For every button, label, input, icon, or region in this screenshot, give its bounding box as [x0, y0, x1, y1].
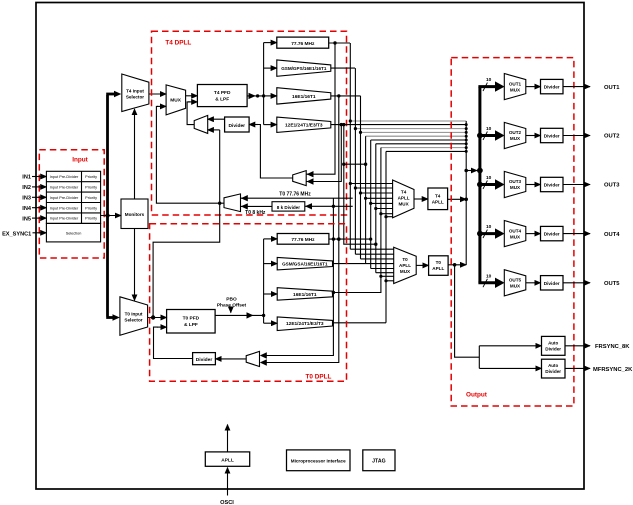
T4 12E1 synth trapezoid — [277, 117, 331, 132]
svg-text:MUX: MUX — [510, 234, 521, 239]
T0 APLL block — [429, 256, 449, 275]
wire PBO arrow — [230, 308, 232, 313]
T4 input selector — [122, 74, 149, 112]
svg-text:T0 DPLL: T0 DPLL — [306, 373, 332, 380]
node IN4 — [22, 206, 46, 212]
svg-text:OSCI: OSCI — [220, 500, 234, 505]
svg-text:Divider: Divider — [544, 85, 560, 90]
wire monitors down to T0 selector — [134, 229, 136, 301]
Input section dashed box — [39, 150, 104, 258]
junction dots on bundle — [349, 119, 362, 134]
OUT4 divider — [541, 226, 564, 240]
svg-text:Phase Offset: Phase Offset — [217, 303, 247, 309]
svg-text:& LPF: & LPF — [184, 322, 198, 328]
wire ref line into feedback mux lower input — [208, 129, 220, 131]
bus arm OUT4 — [477, 224, 505, 239]
node IN2 — [22, 185, 46, 191]
svg-text:Input Pre-Divider: Input Pre-Divider — [50, 217, 79, 221]
svg-text:MUX: MUX — [510, 87, 521, 92]
svg-text:Selection: Selection — [66, 232, 82, 236]
svg-text:FRSYNC_8K: FRSYNC_8K — [595, 344, 630, 350]
T0 16E1 synth trapezoid — [277, 288, 332, 301]
svg-text:IN1: IN1 — [22, 175, 31, 181]
thick input reference bus — [106, 94, 114, 318]
mux U-T0FB — [246, 351, 259, 366]
bus junction dot from clock rail — [477, 168, 483, 174]
svg-text:Divider: Divider — [544, 232, 560, 237]
OUT3 mux — [504, 171, 526, 197]
svg-text:OUT4: OUT4 — [509, 228, 522, 233]
svg-text:T0: T0 — [436, 260, 442, 265]
OUT4 mux — [504, 221, 526, 247]
mux U-T4FB (feedback selector) — [194, 115, 208, 133]
OUT1 divider — [541, 79, 564, 93]
svg-text:Monitors: Monitors — [125, 212, 145, 217]
wire T0 16E1 row — [332, 276, 381, 294]
svg-text:T0 77.76 MHz: T0 77.76 MHz — [279, 191, 311, 197]
svg-text:Divider: Divider — [544, 281, 560, 286]
svg-text:OUT2: OUT2 — [604, 134, 619, 140]
svg-text:Priority: Priority — [85, 196, 97, 200]
wire OUT1 pin — [563, 86, 590, 88]
divider D-T0 — [193, 353, 216, 365]
svg-text:MFRSYNC_2K: MFRSYNC_2K — [593, 367, 633, 373]
wire T4 divider input from 77M select mux — [251, 125, 293, 179]
mux U-T48K (T0 77M / 8k select) — [224, 194, 241, 212]
wire T0 PFD output — [215, 312, 265, 318]
svg-text:APLL: APLL — [398, 196, 410, 201]
svg-text:Input Pre-Divider: Input Pre-Divider — [50, 186, 79, 190]
wire T0 divider feedback into PFD — [154, 327, 193, 358]
wire branch up to T4 feedback mux — [218, 130, 221, 205]
wire T0 fb mux to divider — [215, 358, 246, 360]
arrow bus to T0 selector — [113, 314, 120, 320]
wire MFRSYNC pin — [565, 367, 590, 369]
svg-text:12E1/24T1/E3/T3: 12E1/24T1/E3/T3 — [285, 123, 323, 129]
divider D-8K — [272, 202, 305, 211]
svg-text:IN4: IN4 — [22, 206, 32, 212]
svg-text:Divider: Divider — [545, 369, 561, 374]
wire T0 GSM row — [333, 263, 366, 265]
wire T4 16E1 output run — [331, 94, 361, 97]
wire T4 GSM output run — [331, 67, 355, 69]
wire vertical B to T0 feedback mux lower input — [262, 96, 339, 363]
svg-text:APLL: APLL — [432, 199, 444, 204]
svg-text:MUX: MUX — [398, 202, 409, 207]
svg-text:T4: T4 — [401, 190, 407, 195]
svg-text:10: 10 — [486, 77, 492, 83]
node IN5 — [22, 216, 46, 222]
arrow bus to T4 selector — [114, 91, 121, 97]
wire MUX to T4 PFD — [186, 95, 198, 97]
svg-text:T0 8 kHz: T0 8 kHz — [245, 210, 266, 216]
wire OUT4 pin — [563, 233, 590, 235]
wire arrows into T0 synth blocks — [264, 239, 278, 323]
wire T0 APLL output to clock rail — [448, 263, 466, 267]
wire 77M line into lower select mux — [241, 195, 353, 201]
svg-text:OUT1: OUT1 — [604, 85, 620, 91]
bus arm OUT3 — [477, 175, 505, 190]
wire vertical E — [354, 68, 356, 254]
svg-text:Microprocessor Interface: Microprocessor Interface — [291, 458, 346, 463]
svg-text:16E1/16T1: 16E1/16T1 — [293, 292, 317, 298]
wire T4 synth distribution vertical — [263, 43, 265, 125]
mux U-77SEL (T4 divider source select) — [293, 171, 307, 186]
svg-text:OUT3: OUT3 — [604, 183, 620, 189]
T0 PFD & LPF — [167, 310, 216, 334]
svg-text:Priority: Priority — [85, 186, 97, 190]
wire OUT3 mux to divider — [526, 184, 541, 186]
svg-text:Divider: Divider — [196, 357, 213, 363]
T0 12E1 synth trapezoid — [277, 317, 332, 331]
svg-text:T0: T0 — [402, 257, 408, 262]
APLL block (oscillator) — [205, 452, 249, 466]
svg-text:10: 10 — [486, 224, 492, 230]
svg-text:Input Pre-Divider: Input Pre-Divider — [50, 175, 79, 179]
svg-text:12E1/24T1/E3/T3: 12E1/24T1/E3/T3 — [286, 321, 324, 327]
OUT5 mux — [504, 270, 526, 296]
bus arm OUT5 — [478, 273, 504, 288]
svg-text:T4 Input: T4 Input — [126, 89, 144, 94]
svg-text:EX_SYNC1: EX_SYNC1 — [2, 231, 31, 237]
divider D-T4 — [225, 117, 250, 132]
svg-text:T4 DPLL: T4 DPLL — [165, 40, 191, 47]
svg-text:OUT5: OUT5 — [509, 278, 522, 283]
wire T4 PFD output — [247, 93, 265, 99]
svg-text:APLL: APLL — [399, 263, 411, 268]
wire OUT2 mux to divider — [526, 135, 541, 137]
wire input rows to monitors — [101, 213, 121, 217]
svg-text:OUT3: OUT3 — [509, 179, 522, 184]
svg-text:Input Pre-Divider: Input Pre-Divider — [50, 206, 79, 210]
wire OUT1 mux to divider — [526, 86, 541, 88]
wire T0 APLL MUX to T0 APLL — [416, 264, 428, 266]
clock rail vertical — [464, 121, 468, 265]
mux U-T4APLLMUX — [393, 180, 414, 218]
svg-text:T4 PFD: T4 PFD — [214, 90, 231, 96]
T4 DPLL dashed box — [152, 31, 347, 215]
wire APLL output up — [227, 425, 229, 452]
wire vertical F — [360, 96, 362, 259]
svg-text:Priority: Priority — [85, 175, 97, 179]
svg-text:Selector: Selector — [126, 95, 144, 100]
wire vertical A 77M to upper fb mux — [306, 43, 335, 174]
wire T4 12E1 output run = bundle line2 — [331, 123, 466, 126]
input pre-divider / priority row array — [46, 171, 100, 223]
T0 DPLL dashed box — [150, 224, 347, 382]
OUT3 divider — [541, 177, 564, 191]
wire into auto divider 2 — [479, 367, 541, 369]
wire T4 APLL MUX to T4 APLL — [414, 198, 428, 200]
svg-text:APLL: APLL — [432, 266, 444, 271]
svg-text:MUX: MUX — [510, 136, 521, 141]
wire T0 synth distribution vertical — [263, 239, 265, 323]
svg-text:77.76 MHz: 77.76 MHz — [291, 41, 315, 47]
svg-text:T0 PFD: T0 PFD — [183, 315, 200, 321]
T4 77.76 MHz block — [277, 37, 329, 48]
microprocessor interface block — [287, 450, 351, 471]
svg-text:Divider: Divider — [544, 134, 560, 139]
svg-text:& LPF: & LPF — [215, 97, 229, 103]
svg-text:MUX: MUX — [510, 185, 521, 190]
wire vertical C crossover to G and T0 staircase — [344, 125, 376, 245]
svg-text:Divider: Divider — [229, 123, 246, 129]
wire to T0 feedback mux top — [262, 198, 333, 355]
wire 8k divider input — [305, 203, 353, 209]
svg-text:OUT5: OUT5 — [604, 281, 620, 287]
wire T0 12E1 row (joins K vertical) — [333, 322, 387, 324]
wire T0 APLL branch down to auto dividers — [455, 265, 480, 369]
wire T0 selector to T0 PFD — [148, 315, 167, 319]
wire FRSYNC pin — [565, 345, 590, 347]
selection box — [46, 223, 100, 242]
T4 PFD & LPF — [197, 85, 247, 107]
svg-text:T0 Input: T0 Input — [125, 312, 143, 317]
T4 GSM synth trapezoid — [277, 60, 331, 76]
wire OUT3 pin — [563, 184, 590, 186]
svg-text:MUX: MUX — [170, 98, 181, 104]
wire vertical D — [349, 43, 351, 249]
svg-text:77.76 MHz: 77.76 MHz — [291, 237, 315, 243]
T0 APLL MUX input stubs — [350, 249, 393, 281]
svg-text:MUX: MUX — [510, 284, 521, 289]
OUT1 mux — [504, 74, 526, 100]
svg-text:IN2: IN2 — [22, 185, 31, 191]
T0 GSM synth trapezoid — [277, 257, 332, 270]
JTAG block — [363, 450, 395, 471]
wire OSCI into APLL — [227, 468, 229, 496]
OUT2 divider — [541, 128, 564, 142]
svg-text:GSM/GPS/16E1/16T1: GSM/GPS/16E1/16T1 — [281, 66, 327, 71]
auto divider 2 — [542, 359, 566, 378]
svg-text:T4: T4 — [435, 193, 441, 198]
svg-text:IN5: IN5 — [22, 216, 31, 222]
svg-text:Priority: Priority — [85, 217, 97, 221]
svg-text:APLL: APLL — [221, 457, 234, 463]
svg-text:10: 10 — [486, 175, 492, 181]
bundle lines to output bus — [350, 121, 466, 323]
thick output clock bus — [478, 87, 481, 283]
wire divider to feedback mux — [208, 118, 225, 120]
svg-text:10: 10 — [486, 273, 492, 279]
svg-text:IN3: IN3 — [22, 196, 31, 202]
mux U-T0APLLMUX — [394, 247, 417, 283]
wire clock rail into output bus — [466, 170, 477, 172]
bus arm OUT2 — [477, 126, 505, 141]
wire 8k divider to lower select mux — [241, 203, 273, 209]
auto divider 1 — [542, 336, 566, 355]
svg-text:10: 10 — [486, 126, 492, 132]
Output section dashed box — [451, 58, 574, 406]
OUT2 mux — [504, 122, 526, 148]
wire select mux output to T4 MUX input2 — [156, 106, 224, 203]
svg-text:MUX: MUX — [400, 269, 411, 274]
svg-text:Input: Input — [72, 157, 88, 164]
wire into auto divider 1 — [479, 345, 541, 347]
svg-text:16E1/16T1: 16E1/16T1 — [292, 94, 316, 100]
svg-text:OUT4: OUT4 — [604, 232, 620, 238]
svg-text:Selector: Selector — [124, 318, 142, 323]
T0 77.76 MHz block — [277, 234, 329, 245]
wire monitors up to T4 selector — [134, 109, 136, 199]
wire T0 selector branch up — [153, 203, 220, 317]
bus arm OUT1 — [478, 77, 504, 92]
node IN1 — [22, 175, 46, 181]
svg-text:GSM/GSA/16E1/16T1: GSM/GSA/16E1/16T1 — [282, 262, 328, 267]
svg-text:JTAG: JTAG — [372, 458, 385, 464]
wire T0 77.76 row — [329, 237, 371, 240]
wire OUT5 mux to divider — [526, 282, 541, 284]
node IN3 — [22, 196, 46, 202]
svg-text:8 k Divider: 8 k Divider — [277, 205, 300, 210]
wire T4 APLL output to clock rail — [448, 198, 468, 202]
svg-text:Auto: Auto — [548, 340, 558, 345]
svg-text:OUT1: OUT1 — [509, 81, 522, 86]
svg-text:Divider: Divider — [544, 183, 560, 188]
wire T4 selector to MUX — [149, 93, 166, 95]
wire vertical to upper fb mux input2 — [306, 125, 341, 182]
node EX_SYNC1 — [2, 231, 46, 237]
OUT5 divider — [541, 276, 564, 290]
T4 APLL MUX input stubs — [350, 184, 392, 217]
svg-text:PBO: PBO — [226, 297, 237, 303]
monitors block — [121, 199, 148, 229]
wire OUT2 pin — [563, 135, 590, 137]
wire arrows into T4 synth blocks — [264, 43, 277, 125]
wire OUT5 pin — [563, 282, 590, 284]
svg-text:Input Pre-Divider: Input Pre-Divider — [50, 196, 79, 200]
svg-text:OUT2: OUT2 — [509, 130, 522, 135]
wire T4 77.76 output run — [329, 41, 350, 44]
wire OUT4 mux to divider — [526, 233, 541, 235]
svg-text:Auto: Auto — [548, 363, 558, 368]
svg-text:Output: Output — [466, 392, 488, 399]
T4 APLL block — [428, 188, 448, 210]
T4 16E1 synth trapezoid — [277, 88, 331, 104]
svg-text:Divider: Divider — [545, 346, 561, 351]
mux U-T4REF — [166, 85, 186, 115]
T0 input selector — [120, 297, 148, 336]
svg-text:Priority: Priority — [85, 206, 97, 210]
wire T4 feedback mux to T4 PFD — [187, 102, 194, 125]
